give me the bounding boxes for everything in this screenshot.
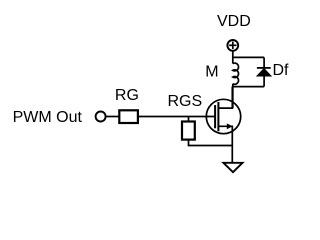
svg-text:RG: RG (115, 87, 139, 104)
wire bottom rail (233, 86, 264, 88)
svg-text:VDD: VDD (217, 13, 251, 30)
svg-text:PWM Out: PWM Out (13, 109, 83, 126)
transistor M drain lead (218, 87, 232, 109)
transistor M channel bar (217, 102, 219, 131)
supply VDD terminal circle (227, 40, 238, 51)
wire terminal to RG (106, 116, 119, 118)
wire top rail (233, 56, 264, 58)
resistor RGS (182, 122, 195, 140)
terminal PWM Out (96, 112, 106, 122)
diode Df cathode bar (257, 67, 271, 69)
svg-text:M: M (205, 64, 218, 81)
wire VDD to top node (232, 51, 234, 64)
resistor RG (119, 110, 138, 123)
wire gate node to RGS (188, 117, 190, 122)
svg-text:RGS: RGS (168, 93, 203, 110)
supply VDD plus sign (229, 44, 236, 46)
diode Df triangle (258, 69, 271, 76)
transistor M source arrow (227, 123, 233, 129)
ground (223, 163, 242, 172)
wire RGS to source node (189, 140, 233, 146)
wire diode branch bottom (263, 76, 265, 87)
wire inductor to drain node (232, 84, 234, 108)
wire diode branch top (263, 57, 265, 68)
transistor M gate bar (214, 105, 216, 128)
transistor M source lead (218, 126, 232, 163)
transistor M (MOSFET) body circle (206, 99, 240, 133)
svg-text:Df: Df (273, 62, 290, 79)
inductor M (motor winding) (233, 63, 239, 84)
wire RG to gate (138, 116, 216, 118)
